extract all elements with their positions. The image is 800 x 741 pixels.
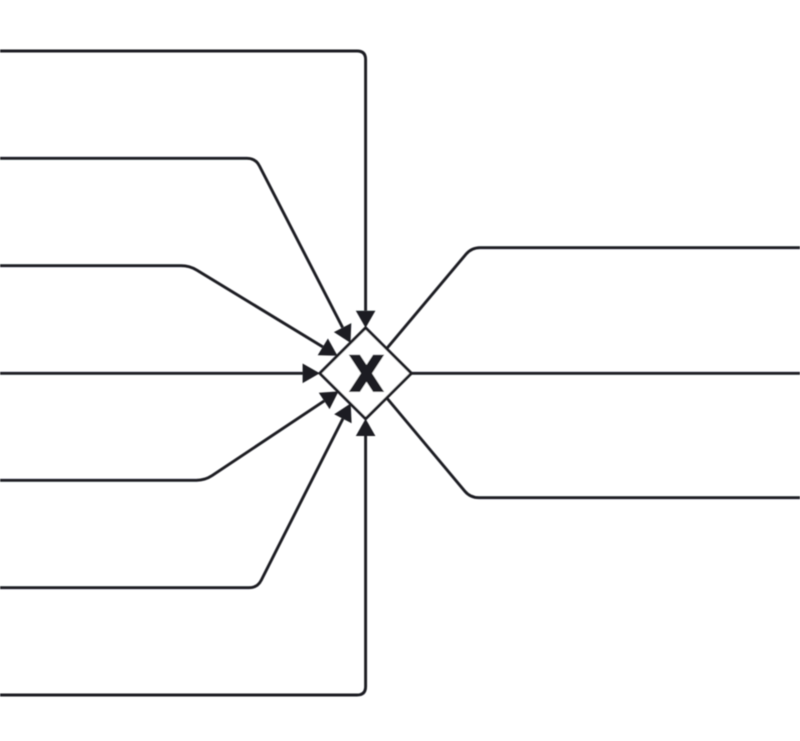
wire edge10 gateway to bottom-right bbox=[387, 398, 800, 498]
wire edge8 gateway to top-right bbox=[387, 248, 800, 349]
arrowhead edge4 bbox=[303, 364, 320, 384]
wire edge6 lower-left diagonal bbox=[0, 419, 343, 588]
arrowhead edge5 bbox=[319, 391, 339, 409]
gateway diamond U1 bbox=[320, 328, 412, 419]
wire edge7 bottom-left to gateway bottom bbox=[0, 436, 366, 695]
arrowhead edge6 bbox=[334, 403, 351, 423]
wire edge4 middle horizontal bbox=[0, 372, 303, 375]
wire edge1 top-left to gateway top bbox=[0, 51, 366, 311]
wire edge2 upper-left diagonal bbox=[0, 158, 343, 327]
arrowhead edge7 bbox=[356, 419, 376, 436]
gateway X marker bbox=[349, 355, 384, 392]
wire edge9 gateway to middle-right bbox=[411, 372, 800, 375]
arrowhead edge3 bbox=[318, 339, 338, 356]
wire edge3 mid-upper-left diagonal bbox=[0, 266, 323, 347]
arrowhead edge1 bbox=[356, 311, 376, 328]
wire edge5 mid-lower-left diagonal bbox=[0, 401, 324, 480]
arrowhead edge2 bbox=[334, 323, 351, 343]
